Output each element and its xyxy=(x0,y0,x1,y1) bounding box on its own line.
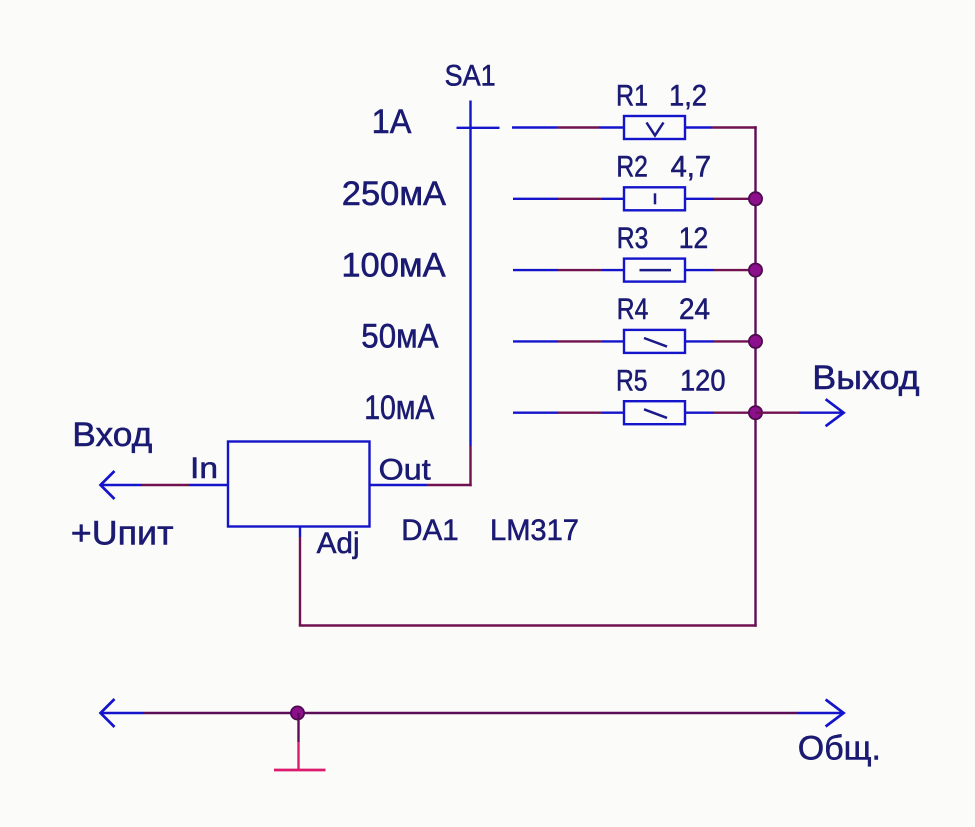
wire row2 left blue xyxy=(513,198,558,200)
op-amp regulator DA1 LM317 body xyxy=(228,442,370,527)
svg-text:DA1: DA1 xyxy=(401,514,458,547)
wire row4 right maroon xyxy=(714,340,756,342)
common rail left blue xyxy=(102,712,144,714)
switch SA1 contact bar xyxy=(457,127,500,129)
resistor R2 xyxy=(624,187,685,210)
wire In blue to arrow xyxy=(102,484,143,486)
svg-text:Out: Out xyxy=(379,453,431,486)
resistor R4 power mark slash xyxy=(644,338,667,347)
wire In blue from box xyxy=(189,484,228,486)
svg-text:1А: 1А xyxy=(372,103,412,141)
node junction row2 xyxy=(749,192,762,205)
svg-text:4,7: 4,7 xyxy=(671,151,712,184)
svg-text:1,2: 1,2 xyxy=(669,79,707,112)
ground bar xyxy=(274,769,326,772)
wire In maroon xyxy=(142,484,189,486)
wire row5 left blue xyxy=(513,412,558,414)
svg-text:R2: R2 xyxy=(616,151,648,184)
wire row1 left blue xyxy=(512,126,557,128)
resistor R3 power mark 0.5W xyxy=(640,269,672,272)
switch SA1 pole wire lower segment xyxy=(469,446,471,486)
svg-text:R1: R1 xyxy=(616,79,648,112)
wire row2 left maroon xyxy=(558,198,602,200)
ground stub purple xyxy=(297,713,299,742)
common rail right arrow xyxy=(826,700,844,727)
wire row3 left maroon xyxy=(558,269,602,271)
wire row1 right maroon xyxy=(712,126,757,128)
ground stub pink xyxy=(297,742,299,770)
common rail left arrow xyxy=(101,699,115,727)
wire row5 right maroon xyxy=(714,412,756,414)
node junction common xyxy=(291,706,304,719)
svg-text:120: 120 xyxy=(680,365,726,398)
wire row3 right blue xyxy=(685,269,714,271)
wire row5 left maroon xyxy=(558,412,602,414)
node junction row5 output xyxy=(749,406,762,419)
node junction row3 xyxy=(749,264,762,277)
svg-text:In: In xyxy=(190,452,218,485)
resistor R1 xyxy=(624,116,685,139)
input arrow xyxy=(101,471,115,499)
resistor R1 power mark V xyxy=(647,123,664,136)
wire output maroon xyxy=(756,412,800,414)
wire row4 left blue2 xyxy=(602,340,624,342)
svg-text:250мА: 250мА xyxy=(342,175,447,213)
output arrow xyxy=(826,399,844,426)
svg-text:10мА: 10мА xyxy=(364,389,434,427)
common rail right blue xyxy=(798,712,843,714)
wire Out blue xyxy=(370,484,427,486)
svg-text:+Uпит: +Uпит xyxy=(71,514,174,552)
svg-text:12: 12 xyxy=(679,222,709,255)
svg-text:24: 24 xyxy=(679,293,710,326)
svg-text:50мА: 50мА xyxy=(361,318,438,356)
wire row1 right blue xyxy=(685,126,712,128)
wire row5 right blue xyxy=(685,412,714,414)
wire row2 right maroon xyxy=(714,198,756,200)
wire row4 left maroon xyxy=(558,340,602,342)
switch SA1 pole wire xyxy=(469,101,471,447)
resistor R5 xyxy=(624,401,685,424)
wire row3 right maroon xyxy=(714,269,756,271)
wire row3 left blue2 xyxy=(602,269,624,271)
wire output blue xyxy=(799,412,843,414)
wire row1 left blue2 xyxy=(599,126,624,128)
svg-text:Общ.: Общ. xyxy=(798,730,881,768)
svg-text:R3: R3 xyxy=(617,222,649,255)
common rail purple xyxy=(143,712,798,714)
wire Adj bottom horizontal xyxy=(299,624,757,626)
wire Out maroon to switch xyxy=(427,484,472,486)
resistor R5 power mark slash xyxy=(644,409,667,418)
wire row2 right blue xyxy=(685,198,714,200)
wire Adj maroon down xyxy=(299,537,301,626)
svg-text:Вход: Вход xyxy=(72,416,152,454)
svg-text:Adj: Adj xyxy=(317,527,360,560)
wire row2 left blue2 xyxy=(602,198,624,200)
wire Adj blue from box xyxy=(299,527,301,538)
wire row5 left blue2 xyxy=(602,412,624,414)
node junction row4 xyxy=(749,335,762,348)
resistor R3 xyxy=(624,259,685,282)
resistor R4 xyxy=(624,330,685,353)
svg-text:LM317: LM317 xyxy=(490,514,579,547)
wire row3 left blue xyxy=(513,269,558,271)
wire row4 left blue xyxy=(513,340,558,342)
wire row1 left maroon xyxy=(557,126,599,128)
resistor R2 power mark I xyxy=(654,193,657,204)
svg-text:R5: R5 xyxy=(616,365,648,398)
svg-text:SA1: SA1 xyxy=(445,59,496,92)
svg-text:R4: R4 xyxy=(617,293,649,326)
svg-text:100мА: 100мА xyxy=(341,246,446,284)
output rail vertical xyxy=(754,126,756,626)
wire row4 right blue xyxy=(685,340,714,342)
svg-text:Выход: Выход xyxy=(812,359,919,397)
